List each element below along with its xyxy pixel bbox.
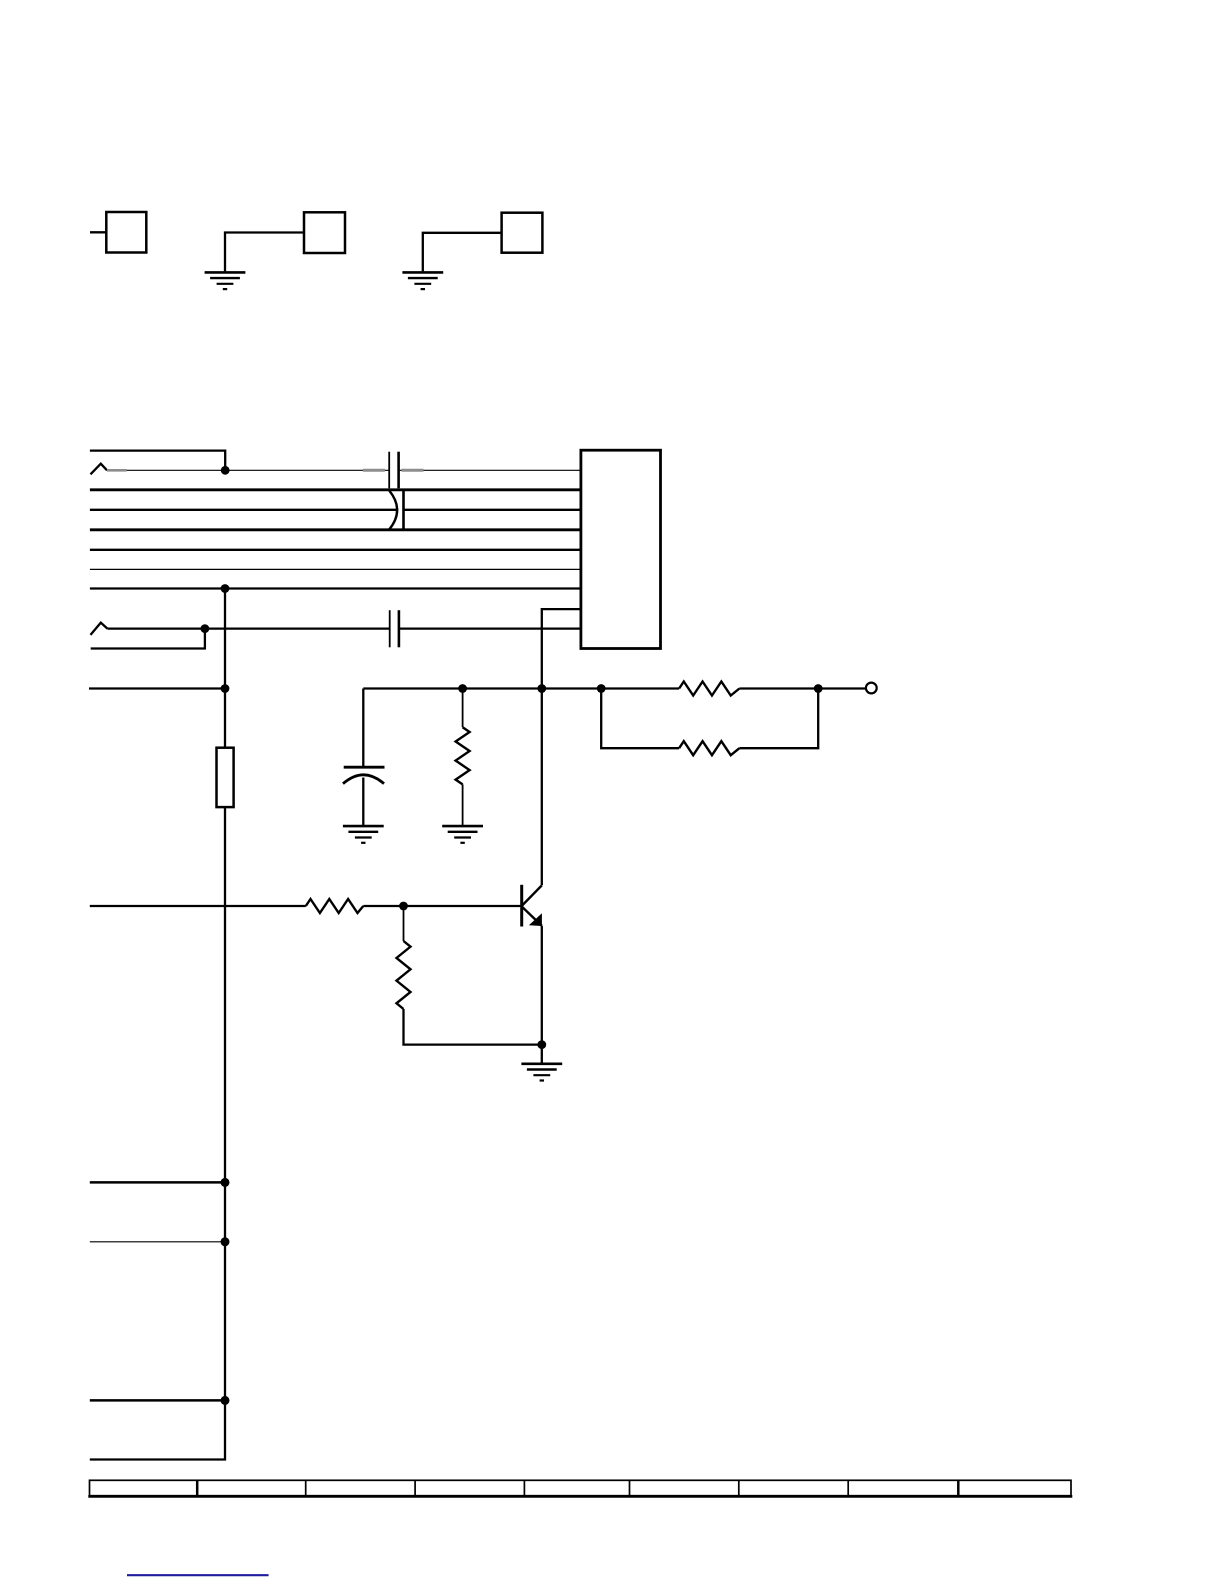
wire top jog: [90, 451, 225, 471]
wire lower row a: [90, 1181, 225, 1184]
wire J3 to ground: [423, 233, 502, 272]
resistor R4: [679, 741, 739, 755]
wire net row left segment: [89, 687, 225, 689]
terminal (open circle): [866, 683, 877, 694]
node row8 junction: [201, 624, 210, 633]
wire down to C4: [362, 689, 364, 768]
node base junction: [399, 902, 408, 911]
ground for J3: [402, 272, 443, 289]
wire R6 to emitter node: [404, 1009, 542, 1045]
node parallel right junction: [814, 684, 823, 693]
wire C4 to ground: [362, 778, 364, 827]
node row1 junction: [221, 466, 230, 475]
connector J1: [90, 212, 146, 253]
wire bus row6: [90, 568, 581, 570]
ground for R2: [442, 826, 483, 843]
hyperlink underline: [127, 1574, 269, 1576]
node lower row b junction: [221, 1237, 230, 1246]
wire bus row5: [90, 549, 581, 551]
node emitter junction: [537, 1040, 546, 1049]
connector J2: [304, 212, 345, 253]
wire bus row8: [107, 627, 581, 629]
wire bus row7: [90, 587, 581, 589]
wire R2 to ground: [462, 784, 464, 826]
resistor R2: [456, 727, 470, 784]
node lower row c junction: [221, 1396, 230, 1405]
ground for C4: [343, 826, 384, 843]
wire bus row3: [90, 509, 581, 511]
wire emitter down: [541, 926, 543, 1045]
node parallel left junction: [597, 684, 606, 693]
IC U1: [581, 450, 661, 648]
wire emitter node to ground: [541, 1045, 543, 1064]
wire lower row c: [90, 1399, 225, 1402]
wire to R2: [462, 689, 464, 728]
node net/collector junction: [537, 684, 546, 693]
gray highlight marks row1: [107, 469, 424, 472]
capacitor C1: [389, 452, 398, 489]
off-page chevron row8: [91, 623, 108, 635]
resistor R3: [679, 682, 739, 696]
wire bus row4: [90, 528, 581, 531]
wire base row: [90, 905, 522, 907]
node net/C4R2 junction: [458, 684, 467, 693]
node lower row a junction: [221, 1178, 230, 1187]
off-page chevron row1: [91, 464, 108, 475]
node row7 junction: [221, 584, 230, 593]
node net/vertical junction: [221, 684, 230, 693]
wire parallel lower branch: [601, 689, 818, 749]
capacitor C4 (polarized): [343, 767, 385, 784]
connector J3: [502, 213, 543, 253]
wire net row right segment: [363, 687, 865, 689]
title block strip: [88, 1480, 1072, 1496]
ground for J2: [205, 272, 246, 289]
transistor Q1: [522, 885, 542, 927]
resistor R5: [306, 899, 364, 913]
wire base resistor branch: [403, 906, 405, 941]
capacitor C3: [390, 610, 399, 647]
resistor R1 (box style): [217, 748, 234, 807]
capacitor C2: [389, 490, 403, 530]
wire lower row b: [90, 1241, 225, 1243]
wire long vertical upper: [224, 589, 226, 748]
wire row8 lower stub: [91, 629, 205, 649]
wire long vertical lower: [90, 807, 225, 1459]
ground for Q1 emitter: [521, 1064, 562, 1081]
wire U1 pin step to Q1 collector: [542, 609, 581, 885]
wire J2 to ground: [225, 233, 304, 272]
wire bus row2: [90, 488, 581, 491]
wire bus row1: [107, 469, 581, 471]
resistor R6: [397, 941, 411, 1009]
